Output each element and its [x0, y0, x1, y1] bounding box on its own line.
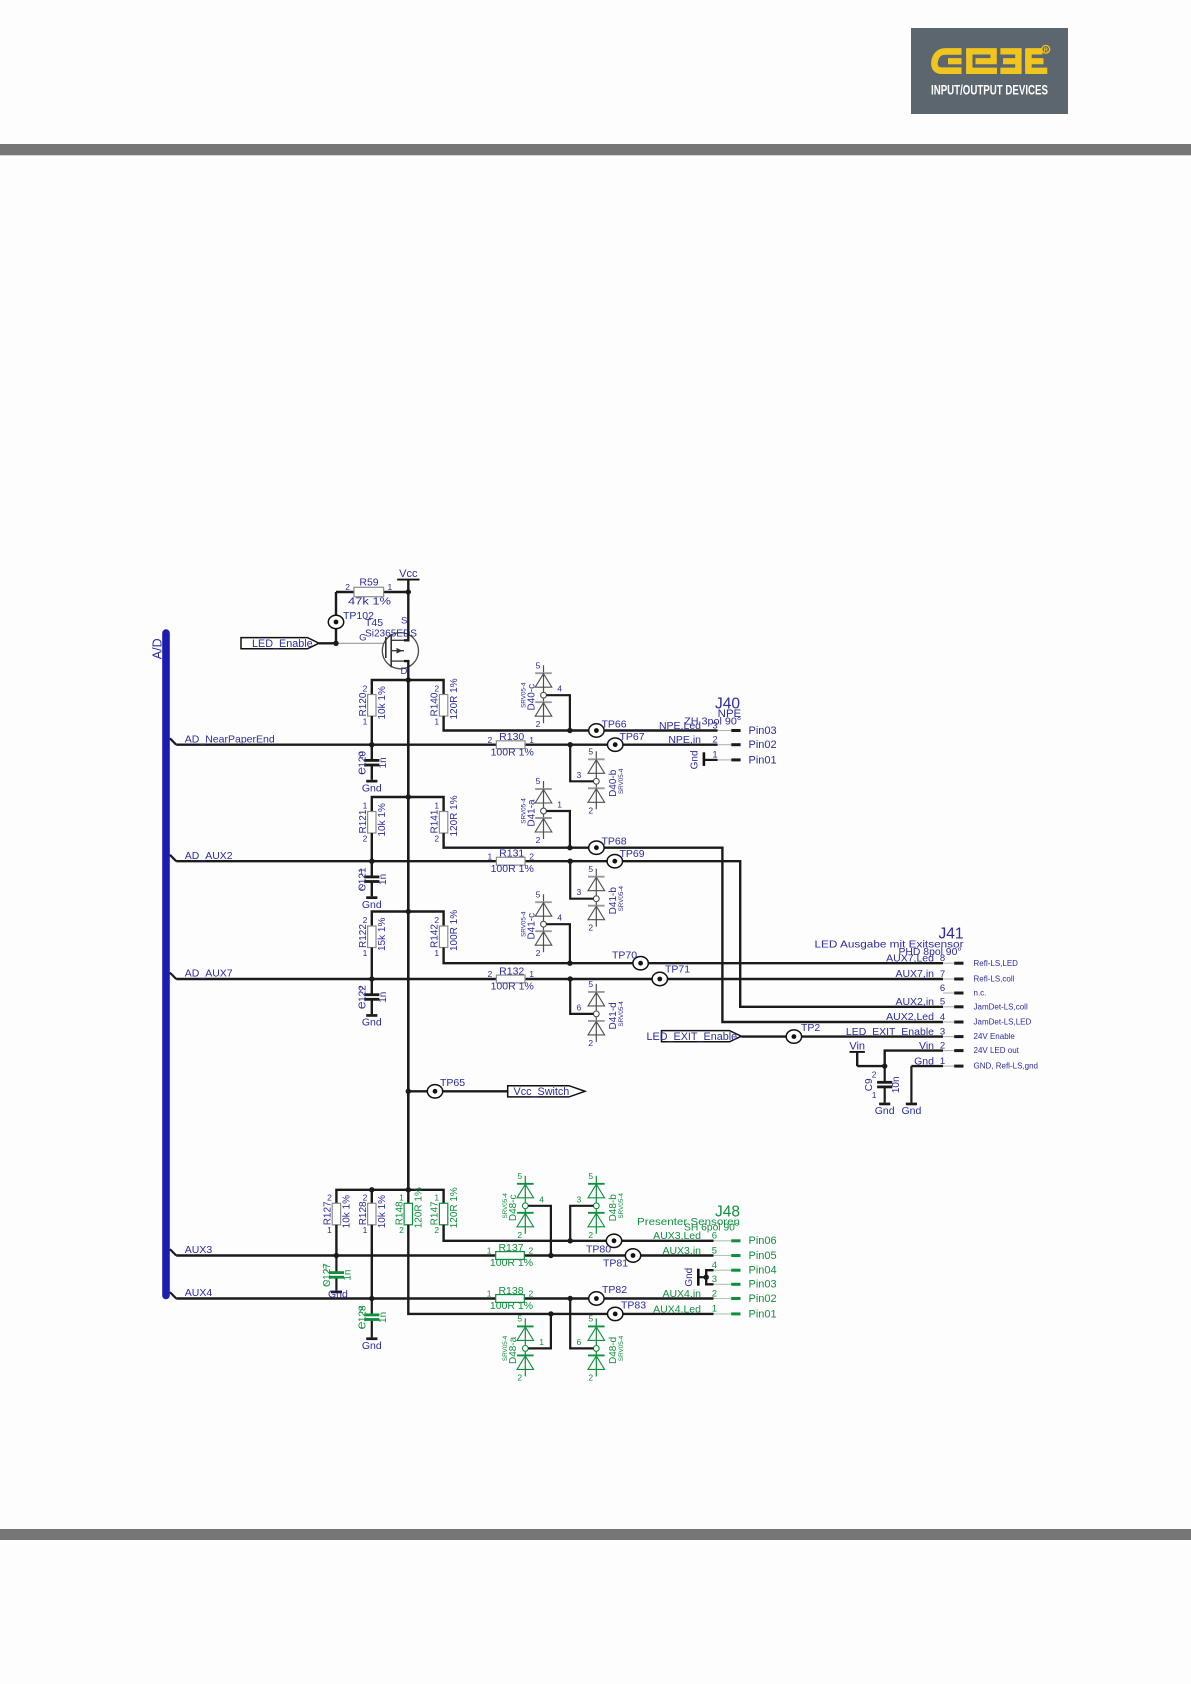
- svg-text:1: 1: [363, 948, 368, 958]
- connector J48 pin 2: [662, 1288, 776, 1305]
- svg-text:5: 5: [588, 1171, 593, 1181]
- svg-text:2: 2: [536, 719, 541, 729]
- wire row2 Led line: [444, 833, 943, 1022]
- svg-text:120R 1%: 120R 1%: [449, 795, 460, 836]
- test point TP102: [328, 610, 374, 629]
- connector J41 pin 2: [919, 1040, 1020, 1055]
- svg-text:1: 1: [434, 1193, 439, 1203]
- wire AUX3 line: [176, 1254, 713, 1256]
- junction D48-d-AUX4: [568, 1296, 573, 1301]
- svg-text:R121: R121: [358, 809, 369, 833]
- svg-text:4: 4: [940, 1012, 945, 1023]
- connector J40 pin 2: [668, 734, 776, 751]
- svg-text:D: D: [401, 666, 408, 677]
- ground below C127: [331, 1291, 342, 1294]
- svg-text:n.c.: n.c.: [974, 989, 987, 998]
- resistor R130 100R: [487, 731, 534, 758]
- svg-text:JamDet-LS,coll: JamDet-LS,coll: [974, 1002, 1028, 1011]
- svg-text:SRV05-4: SRV05-4: [618, 885, 625, 911]
- svg-text:1n: 1n: [378, 1312, 389, 1323]
- svg-text:100R 1%: 100R 1%: [490, 1300, 533, 1312]
- svg-text:2: 2: [529, 1289, 534, 1299]
- junction D48-c-AUX3: [548, 1253, 553, 1258]
- svg-text:Pin03: Pin03: [749, 1279, 777, 1291]
- svg-text:10n: 10n: [891, 1076, 902, 1093]
- wire row1 top rail: [372, 680, 444, 695]
- resistor R137 100R: [487, 1242, 534, 1269]
- diode array D40-c: [520, 660, 552, 729]
- svg-text:TP81: TP81: [603, 1258, 628, 1270]
- junction R122-AD_AUX7: [369, 976, 374, 981]
- svg-text:R128: R128: [358, 1201, 369, 1225]
- wire drain vertical trunk: [407, 680, 410, 1190]
- wire AD_AUX7 line: [176, 978, 943, 980]
- svg-text:2: 2: [359, 985, 364, 995]
- svg-text:D41-c: D41-c: [526, 913, 537, 940]
- svg-text:2: 2: [434, 915, 439, 925]
- svg-text:R132: R132: [499, 965, 524, 977]
- svg-text:SRV05-4: SRV05-4: [520, 911, 527, 937]
- svg-text:1: 1: [359, 766, 364, 776]
- junction gnd bracket: [704, 1275, 709, 1280]
- connector J48 pin 6: [653, 1230, 777, 1247]
- svg-text:1: 1: [327, 1225, 332, 1235]
- svg-text:AUX3: AUX3: [185, 1244, 213, 1256]
- junction drain-rail row3: [406, 909, 411, 914]
- svg-text:R141: R141: [430, 809, 441, 833]
- svg-text:D40-c: D40-c: [526, 684, 537, 711]
- svg-text:SRV05-4: SRV05-4: [618, 768, 625, 794]
- svg-text:S: S: [401, 616, 407, 627]
- svg-text:1: 1: [872, 1090, 877, 1100]
- svg-text:D48-c: D48-c: [508, 1194, 519, 1221]
- svg-text:2: 2: [363, 684, 368, 694]
- svg-text:2: 2: [529, 851, 534, 861]
- net flag Vcc_Switch: [508, 1086, 585, 1098]
- capacitor C127 1n: [322, 1262, 354, 1287]
- connector J41 pin 6: [940, 983, 987, 998]
- wire R148 to AUX4Led: [408, 1225, 713, 1314]
- junction drain-TP65: [406, 1089, 411, 1094]
- wire row3 top rail: [372, 912, 444, 927]
- junction rail-R148: [406, 1187, 411, 1192]
- ground at J48 pins 3-4: [684, 1268, 698, 1287]
- wire T45 drain: [404, 661, 408, 680]
- net flag LED_EXIT_Enable: [647, 1031, 742, 1043]
- diode array D41-a: [520, 776, 552, 845]
- wire AD_NearPaperEnd line: [176, 744, 717, 746]
- svg-text:1: 1: [487, 1289, 492, 1299]
- top frame bar: [0, 144, 1191, 155]
- svg-text:3: 3: [576, 1194, 581, 1204]
- svg-text:5: 5: [712, 1245, 717, 1256]
- svg-text:TP80: TP80: [586, 1244, 611, 1256]
- svg-text:Vin: Vin: [849, 1041, 865, 1053]
- svg-text:1n: 1n: [343, 1270, 354, 1281]
- svg-text:100R 1%: 100R 1%: [490, 1257, 533, 1269]
- wire row3 Led line: [444, 948, 943, 964]
- junction D41-c-Led: [567, 961, 572, 966]
- svg-text:2: 2: [588, 1038, 593, 1048]
- test point TP70: [612, 950, 648, 970]
- svg-text:2: 2: [712, 1288, 717, 1299]
- capacitor C121 1n: [358, 867, 390, 892]
- resistor R148: [394, 1187, 424, 1235]
- svg-text:8: 8: [940, 953, 945, 964]
- svg-text:R148: R148: [394, 1201, 405, 1225]
- svg-text:2: 2: [588, 1372, 593, 1382]
- svg-text:Vcc: Vcc: [399, 568, 418, 580]
- svg-text:Pin04: Pin04: [749, 1265, 777, 1277]
- svg-text:INPUT/OUTPUT DEVICES: INPUT/OUTPUT DEVICES: [931, 83, 1048, 98]
- wire bottom rail: [336, 1190, 443, 1204]
- svg-text:5: 5: [517, 1171, 522, 1181]
- resistor R121: [358, 801, 388, 844]
- svg-text:1: 1: [399, 1193, 404, 1203]
- resistor R127: [323, 1193, 353, 1236]
- test point TP66: [589, 718, 627, 737]
- svg-text:R131: R131: [499, 848, 524, 860]
- wire C120 stem: [371, 745, 373, 761]
- junction R121-AD_AUX2: [369, 859, 374, 864]
- resistor R147: [430, 1187, 460, 1235]
- svg-text:3: 3: [576, 887, 581, 897]
- wire R59 pin2 down to gate net: [335, 592, 337, 643]
- svg-text:2: 2: [359, 1305, 364, 1315]
- ground below C128: [366, 1337, 377, 1340]
- junction D41-a-Led: [567, 845, 572, 850]
- svg-text:2: 2: [359, 750, 364, 760]
- wire R120 to AD_NearPaperEnd line: [371, 716, 373, 745]
- svg-text:Pin02: Pin02: [749, 739, 777, 751]
- resistor R132 100R: [487, 965, 534, 992]
- svg-text:100R 1%: 100R 1%: [449, 910, 460, 951]
- GeBE logo lettering: [934, 45, 1049, 73]
- diode array D48-d: [588, 1314, 625, 1383]
- svg-text:SRV05-4: SRV05-4: [502, 1335, 509, 1361]
- svg-text:120R 1%: 120R 1%: [449, 1187, 460, 1228]
- junction drain-rail row1: [406, 677, 411, 682]
- svg-text:2: 2: [363, 915, 368, 925]
- svg-text:6: 6: [940, 983, 945, 994]
- wire R127 to AUX3: [335, 1225, 337, 1256]
- svg-text:5: 5: [536, 776, 541, 786]
- svg-text:1: 1: [529, 969, 534, 979]
- wire D41-b tap riser: [570, 861, 593, 899]
- svg-text:3: 3: [576, 770, 581, 780]
- wire bottom rail stub R148: [407, 1190, 409, 1204]
- connector J41 pin 1: [914, 1055, 1038, 1070]
- junction R120-AD_NearPaperEnd: [369, 742, 374, 747]
- connector J40 pin 3: [659, 720, 777, 737]
- svg-text:D41-a: D41-a: [526, 799, 537, 827]
- svg-text:2: 2: [487, 969, 492, 979]
- svg-text:2: 2: [323, 1278, 328, 1288]
- svg-text:1n: 1n: [378, 757, 389, 768]
- svg-text:2: 2: [712, 735, 717, 746]
- wire C122 stem: [371, 979, 373, 995]
- svg-text:R122: R122: [358, 924, 369, 948]
- svg-text:2: 2: [363, 833, 368, 843]
- svg-text:6: 6: [576, 1337, 581, 1347]
- resistor R138 100R: [487, 1285, 534, 1312]
- svg-text:2: 2: [359, 882, 364, 892]
- resistor R59: [336, 577, 408, 608]
- svg-text:1n: 1n: [378, 874, 389, 885]
- svg-text:2: 2: [517, 1372, 522, 1382]
- svg-text:2: 2: [399, 1225, 404, 1235]
- svg-text:1: 1: [434, 716, 439, 726]
- wire LED_EXIT_Enable to J41 pin3: [741, 1035, 943, 1037]
- svg-text:2: 2: [363, 1193, 368, 1203]
- svg-text:2: 2: [434, 684, 439, 694]
- svg-text:R137: R137: [498, 1242, 523, 1254]
- svg-text:R120: R120: [358, 692, 369, 716]
- svg-text:1: 1: [434, 801, 439, 811]
- svg-text:6: 6: [712, 1231, 717, 1242]
- junction TP102-LED_Enable: [333, 641, 338, 646]
- svg-text:D48-a: D48-a: [508, 1336, 519, 1364]
- wire R121 to AD_AUX2 line: [371, 833, 373, 861]
- connector J48 pin 1: [653, 1303, 777, 1320]
- connector J41 pin 3: [846, 1026, 1016, 1041]
- svg-text:1: 1: [363, 1225, 368, 1235]
- wire D48-a tap to AUX4Led: [528, 1314, 551, 1349]
- connector J41 pin 4: [886, 1011, 1031, 1026]
- resistor R122: [358, 915, 388, 958]
- svg-text:TP82: TP82: [602, 1284, 627, 1296]
- wire D48-d tap to AUX4: [570, 1299, 593, 1349]
- svg-text:1: 1: [359, 1320, 364, 1330]
- svg-text:AUX2,in: AUX2,in: [895, 996, 934, 1008]
- svg-text:Gnd: Gnd: [362, 1340, 382, 1352]
- connector J48 pin 5: [662, 1245, 776, 1262]
- svg-text:SRV05-4: SRV05-4: [618, 1193, 625, 1219]
- svg-text:1: 1: [434, 948, 439, 958]
- svg-text:TP71: TP71: [665, 964, 690, 976]
- svg-text:AUX4,Led: AUX4,Led: [653, 1303, 701, 1315]
- svg-text:SRV05-4: SRV05-4: [520, 682, 527, 708]
- test point TP65: [427, 1077, 465, 1098]
- ground below C122: [366, 1014, 377, 1017]
- svg-text:4: 4: [557, 684, 562, 694]
- svg-text:120R 1%: 120R 1%: [414, 1187, 425, 1228]
- svg-text:NPE,Led: NPE,Led: [659, 720, 701, 732]
- wire C9 node to J41 pin2: [885, 1051, 943, 1067]
- svg-text:10k 1%: 10k 1%: [377, 803, 388, 836]
- capacitor C9 10n: [864, 1070, 902, 1100]
- wire C121 stem: [371, 861, 373, 877]
- svg-text:Refl-LS,coll: Refl-LS,coll: [974, 975, 1015, 984]
- diode array D41-b: [588, 864, 625, 933]
- bottom frame bar: [0, 1529, 1191, 1540]
- junction R128-AUX4: [369, 1296, 374, 1301]
- wire AUX4 line: [176, 1297, 713, 1299]
- svg-text:Pin03: Pin03: [749, 725, 777, 737]
- resistor R131 100R: [487, 848, 534, 875]
- svg-text:SRV05-4: SRV05-4: [520, 798, 527, 824]
- wire R122 to AD_AUX7 line: [371, 948, 373, 980]
- wire TP65 row: [408, 1090, 507, 1092]
- svg-text:2: 2: [588, 1230, 593, 1240]
- test point TP68: [589, 835, 627, 854]
- resistor R142: [430, 910, 460, 958]
- svg-text:5: 5: [940, 997, 945, 1008]
- svg-text:1: 1: [363, 801, 368, 811]
- svg-text:4: 4: [557, 913, 562, 923]
- svg-text:Gnd: Gnd: [362, 782, 382, 794]
- svg-text:A/D: A/D: [151, 638, 165, 659]
- svg-text:AD_NearPaperEnd: AD_NearPaperEnd: [185, 733, 275, 745]
- ground below C9: [879, 1103, 890, 1106]
- svg-text:5: 5: [588, 979, 593, 989]
- svg-text:15k 1%: 15k 1%: [377, 918, 388, 951]
- svg-text:Gnd: Gnd: [684, 1268, 695, 1287]
- svg-text:4: 4: [539, 1194, 544, 1204]
- svg-text:R: R: [1044, 48, 1049, 54]
- svg-text:R130: R130: [499, 731, 524, 743]
- svg-text:LED_EXIT_Enable: LED_EXIT_Enable: [647, 1031, 738, 1043]
- wire Vin to C9 node: [857, 1065, 885, 1067]
- svg-text:1: 1: [363, 716, 368, 726]
- test point TP67: [608, 731, 645, 751]
- wire C127 stems: [335, 1256, 337, 1273]
- capacitor C122 1n: [358, 985, 390, 1010]
- svg-text:1: 1: [359, 1000, 364, 1010]
- ground below C120: [366, 780, 377, 783]
- svg-text:5: 5: [536, 660, 541, 670]
- svg-text:47k 1%: 47k 1%: [348, 595, 391, 607]
- svg-text:SRV05-4: SRV05-4: [618, 1335, 625, 1361]
- svg-text:24V Enable: 24V Enable: [974, 1032, 1016, 1041]
- connector J48 pin 4: [712, 1260, 777, 1277]
- wire D48-b tap to AUX3Led: [570, 1206, 593, 1241]
- svg-text:Pin01: Pin01: [749, 1308, 777, 1320]
- svg-text:5: 5: [588, 864, 593, 874]
- svg-text:R142: R142: [430, 924, 441, 948]
- capacitor C128 1n: [358, 1305, 390, 1330]
- svg-text:Gnd: Gnd: [690, 750, 701, 769]
- svg-text:Gnd: Gnd: [362, 1017, 382, 1029]
- svg-text:2: 2: [536, 835, 541, 845]
- test point TP83: [608, 1300, 647, 1321]
- svg-text:2: 2: [517, 1230, 522, 1240]
- svg-text:Refl-LS,LED: Refl-LS,LED: [974, 959, 1019, 968]
- svg-text:Gnd: Gnd: [901, 1105, 921, 1117]
- svg-text:TP65: TP65: [440, 1077, 465, 1089]
- svg-text:100R 1%: 100R 1%: [491, 863, 534, 875]
- wire C128 stems: [371, 1299, 373, 1315]
- wire row1 Led line: [444, 716, 718, 731]
- svg-text:100R 1%: 100R 1%: [491, 746, 534, 758]
- svg-text:Pin06: Pin06: [749, 1235, 777, 1247]
- svg-text:10k 1%: 10k 1%: [377, 1195, 388, 1228]
- svg-text:2: 2: [529, 1246, 534, 1256]
- connector J40 pin 1: [712, 750, 776, 767]
- wire T45 source to Vcc: [404, 592, 408, 640]
- wire D41-a tap to Led line: [546, 811, 570, 848]
- svg-text:2: 2: [536, 948, 541, 958]
- svg-text:2: 2: [588, 923, 593, 933]
- connector J41 pin 5: [895, 996, 1027, 1011]
- wire LED_Enable to gate: [319, 642, 338, 644]
- svg-text:1: 1: [323, 1262, 328, 1272]
- ground at J41 pin1: [906, 1103, 917, 1106]
- diode array D48-a: [502, 1314, 533, 1383]
- connector J41 pin 7: [895, 968, 1014, 983]
- svg-text:TP66: TP66: [602, 718, 627, 730]
- junction Vin-C9: [882, 1063, 887, 1068]
- svg-text:1: 1: [712, 1304, 717, 1315]
- svg-text:AUX3,Led: AUX3,Led: [653, 1230, 701, 1242]
- svg-text:Pin02: Pin02: [749, 1293, 777, 1305]
- svg-text:R147: R147: [430, 1201, 441, 1225]
- resistor R120: [358, 684, 388, 727]
- test point TP81: [603, 1249, 641, 1270]
- junction D41-d-AD_AUX7: [568, 976, 573, 981]
- svg-text:R127: R127: [323, 1201, 334, 1225]
- wire J41 pin1 Gnd leg: [911, 1065, 943, 1067]
- svg-text:1n: 1n: [378, 992, 389, 1003]
- wire D41-d tap riser: [570, 979, 593, 1014]
- power Vin symbol: [849, 1041, 865, 1067]
- junction D48-a-AUX4Led: [548, 1311, 553, 1316]
- test point TP71: [652, 964, 690, 986]
- bus entry AUX3: [170, 1249, 176, 1255]
- svg-text:1: 1: [539, 1337, 544, 1347]
- junction rail-R128: [369, 1187, 374, 1192]
- svg-text:AD_AUX7: AD_AUX7: [185, 968, 233, 980]
- svg-text:AUX2,Led: AUX2,Led: [886, 1011, 934, 1023]
- svg-text:1: 1: [557, 800, 562, 810]
- svg-text:2: 2: [872, 1070, 877, 1080]
- test point TP2: [786, 1022, 820, 1043]
- svg-text:2: 2: [434, 1225, 439, 1235]
- GeBE logo background box: [911, 28, 1068, 114]
- svg-text:10k 1%: 10k 1%: [342, 1195, 353, 1228]
- connector J48 pin 3: [712, 1274, 777, 1291]
- svg-text:AD_AUX2: AD_AUX2: [185, 850, 233, 862]
- test point TP82: [589, 1284, 628, 1305]
- bus entry AD_AUX7: [170, 973, 176, 979]
- svg-text:TP69: TP69: [620, 848, 645, 860]
- svg-text:SRV05-4: SRV05-4: [618, 1001, 625, 1027]
- svg-text:R59: R59: [359, 577, 378, 589]
- diode array D48-c: [502, 1171, 533, 1240]
- wire R147 to AUX3Led: [444, 1225, 714, 1241]
- svg-text:GND, Refl-LS,gnd: GND, Refl-LS,gnd: [974, 1062, 1038, 1071]
- junction D41-b-AD_AUX2: [568, 859, 573, 864]
- svg-text:TP67: TP67: [620, 731, 645, 743]
- svg-text:SRV05-4: SRV05-4: [502, 1193, 509, 1219]
- ground at J40 pin1: [690, 750, 718, 769]
- capacitor C120 1n: [358, 750, 390, 775]
- diode array D40-b: [588, 747, 625, 816]
- svg-text:TP2: TP2: [801, 1022, 820, 1034]
- svg-text:100R 1%: 100R 1%: [491, 981, 534, 993]
- svg-text:5: 5: [588, 747, 593, 757]
- svg-text:2: 2: [487, 735, 492, 745]
- svg-text:5: 5: [536, 889, 541, 899]
- svg-text:Pin05: Pin05: [749, 1250, 777, 1262]
- wire D48-c tap to AUX3: [528, 1206, 551, 1256]
- svg-text:R138: R138: [498, 1285, 523, 1297]
- svg-text:AUX4,in: AUX4,in: [662, 1288, 701, 1300]
- junction D40-c-Led: [567, 728, 572, 733]
- svg-text:TP70: TP70: [612, 950, 637, 962]
- svg-text:7: 7: [940, 969, 945, 980]
- svg-text:Vcc_Switch: Vcc_Switch: [514, 1086, 570, 1098]
